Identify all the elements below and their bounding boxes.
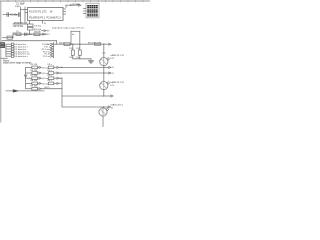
wire power rail xyxy=(2,40,57,42)
lamp L3 xyxy=(99,108,107,116)
resistor R2 xyxy=(16,33,21,36)
sheet left border xyxy=(0,1,2,122)
wire lamp1 bottom xyxy=(103,66,105,73)
lamp L2 xyxy=(100,82,108,90)
svg-text:12V: 12V xyxy=(110,58,114,60)
keypad block xyxy=(86,3,99,18)
wire fan vertical xyxy=(5,44,7,56)
resistor RB xyxy=(79,44,81,50)
svg-text:P3.0/RXD P3.1: P3.0/RXD P3.1 xyxy=(29,16,46,19)
svg-text:12: 12 xyxy=(112,73,114,75)
net row labels left xyxy=(14,43,30,58)
wire rail drop xyxy=(56,41,58,45)
svg-text:P1.5 xx: P1.5 xx xyxy=(43,56,51,58)
row5 into vertical xyxy=(41,88,62,90)
svg-text:OUT5: OUT5 xyxy=(44,87,50,89)
fan bus xyxy=(25,67,27,88)
net 5V arrow xyxy=(42,30,44,32)
fuse F1 xyxy=(95,43,101,45)
wire arrow right xyxy=(105,43,109,45)
terminal J2 xyxy=(1,45,5,47)
tiny net labels after arrows xyxy=(60,67,62,85)
wire reset row xyxy=(13,33,46,35)
wire RST lower xyxy=(29,30,31,34)
svg-text:Q4 out: Q4 out xyxy=(42,82,49,85)
wire lamp3 net xyxy=(103,106,104,107)
wire to capacitor xyxy=(3,14,18,16)
ground xyxy=(88,60,93,62)
row3 corner down xyxy=(59,77,62,79)
wire XTAL2 stub xyxy=(25,12,28,14)
wire XTAL1 vertical xyxy=(20,7,22,24)
wire crystal bottom xyxy=(13,23,27,25)
lamp arrows xyxy=(107,58,110,61)
switch SW1 xyxy=(7,36,12,39)
terminal J1 xyxy=(1,43,5,45)
bottom wires right xyxy=(62,95,104,97)
wire to ground xyxy=(73,58,91,60)
crystal X1 label xyxy=(6,13,8,17)
top net wire xyxy=(66,4,79,6)
svg-text:R5 220: R5 220 xyxy=(31,64,39,66)
row arrows into bus xyxy=(51,43,54,57)
gnd arrow wire xyxy=(6,90,44,92)
keypad stubs xyxy=(84,8,87,10)
wire arrow xyxy=(43,33,45,35)
svg-text:P3.2: P3.2 xyxy=(45,34,50,36)
resistor RA xyxy=(72,44,74,50)
capacitor C3 xyxy=(28,24,34,27)
resistor R4 xyxy=(64,43,70,46)
capacitor C2 plates xyxy=(17,13,19,17)
IC right stubs xyxy=(63,8,66,10)
net row labels right xyxy=(42,43,51,58)
svg-text:R7 220: R7 220 xyxy=(31,75,39,77)
svg-text:P1.0/T2 P1.1/T2: P1.0/T2 P1.1/T2 xyxy=(29,10,47,13)
resistor R3 xyxy=(34,33,40,36)
svg-text:output drive stage for lamps: output drive stage for lamps xyxy=(3,61,32,64)
op IC U1 body xyxy=(28,8,64,21)
junction B xyxy=(79,44,80,45)
svg-text:R9 220: R9 220 xyxy=(31,86,39,88)
svg-text:X1 30p: X1 30p xyxy=(10,15,18,17)
svg-text:CRYSTAL: CRYSTAL xyxy=(13,25,24,28)
wire lamp3 bottom xyxy=(102,116,104,126)
svg-text:12V: 12V xyxy=(110,85,114,87)
svg-text:C3 10u: C3 10u xyxy=(34,25,42,27)
svg-text:LAMP-PLT-12: LAMP-PLT-12 xyxy=(110,81,124,84)
plus mark xyxy=(13,32,15,34)
wire to lamp2 xyxy=(103,73,105,82)
capacitor C4 xyxy=(28,27,34,30)
svg-text:DIAG-OUT-1: DIAG-OUT-1 xyxy=(111,104,124,107)
junction A xyxy=(72,44,73,45)
wire XTAL2 vertical xyxy=(24,7,26,24)
wire XTAL1 stub xyxy=(21,9,28,11)
svg-text:1A: 1A xyxy=(50,10,53,13)
bus vertical xyxy=(53,43,55,58)
diode D1 xyxy=(25,33,28,36)
wire lamp2 bottom xyxy=(103,90,105,96)
svg-text:RST: RST xyxy=(28,34,33,36)
svg-text:P2.0/A8 P2.3: P2.0/A8 P2.3 xyxy=(47,16,62,19)
svg-text:x4: x4 xyxy=(60,83,62,85)
net stub vertical xyxy=(70,31,72,44)
wire down to lamp1 xyxy=(103,44,105,57)
arrows right of junctions xyxy=(105,66,109,68)
wire main horizontal xyxy=(54,43,104,45)
net rows xyxy=(6,44,11,56)
driver rows xyxy=(26,67,32,88)
wire stub bottom left of header xyxy=(1,57,8,59)
svg-text:lamp driver output stage 12V r: lamp driver output stage 12V rail xyxy=(52,26,84,29)
svg-text:KEYPAD: KEYPAD xyxy=(72,3,81,6)
long wires xyxy=(61,67,62,68)
sheet top border xyxy=(0,0,150,2)
wire RST stub xyxy=(29,21,31,25)
svg-text:Vs: Vs xyxy=(72,34,74,36)
svg-text:D5 data line x: D5 data line x xyxy=(14,55,28,58)
svg-text:LAMP-PLT-12: LAMP-PLT-12 xyxy=(110,54,124,57)
U1 pin 31 stub xyxy=(42,21,44,24)
svg-text:R8 220: R8 220 xyxy=(31,80,39,82)
wire lower L xyxy=(3,37,14,39)
bus arrow xyxy=(24,75,27,78)
svg-text:22pF: 22pF xyxy=(15,6,21,8)
svg-text:R6 220: R6 220 xyxy=(31,70,39,72)
junction xyxy=(103,44,104,45)
svg-text:12: 12 xyxy=(112,67,114,69)
second stage rows 1-3 xyxy=(48,66,54,85)
junction xyxy=(70,44,71,45)
lamp L1 xyxy=(100,58,108,66)
